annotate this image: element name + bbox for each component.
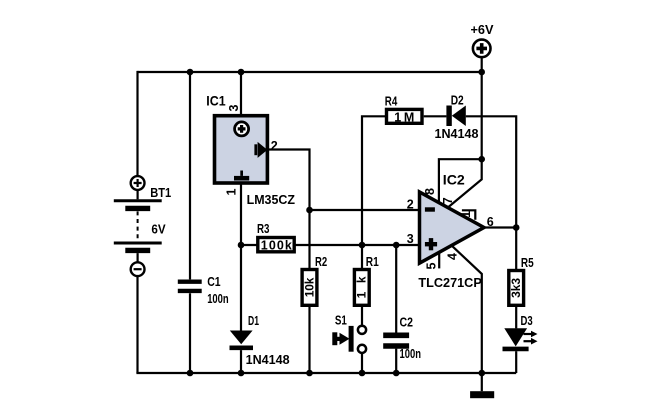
svg-text:7: 7	[441, 197, 455, 204]
wire C1 branch	[189, 72, 191, 373]
svg-text:3: 3	[227, 104, 241, 111]
node bottom ground	[479, 370, 486, 377]
svg-text:2: 2	[407, 197, 414, 211]
wire IC1 pin1 down	[240, 183, 242, 331]
svg-text:R1: R1	[366, 255, 379, 269]
svg-text:R5: R5	[521, 256, 534, 270]
wire opamp pin8	[439, 159, 482, 202]
wire top rail	[138, 71, 482, 73]
wire IC1 pin3	[240, 72, 242, 114]
svg-text:TLC271CP: TLC271CP	[418, 275, 482, 290]
svg-text:S1: S1	[335, 314, 347, 328]
LED D3	[503, 314, 538, 373]
wire IC1 pin2 to opamp pin2	[267, 150, 419, 211]
capacitor C2	[383, 245, 421, 373]
wire opamp pin4 to ground	[452, 246, 482, 373]
svg-text:6V: 6V	[151, 223, 166, 237]
node bottom S1	[359, 370, 366, 377]
svg-text:BT1: BT1	[150, 186, 171, 200]
svg-text:1M: 1M	[394, 110, 414, 124]
node bottom C1	[187, 370, 194, 377]
switch S1	[332, 314, 366, 374]
resistor R2 10k	[302, 210, 327, 373]
node R3 left	[238, 242, 245, 249]
wire opamp pin1 stub	[462, 210, 475, 220]
svg-text:C2: C2	[400, 316, 413, 330]
wire opamp output pin6	[484, 226, 516, 228]
node pin2	[306, 207, 313, 214]
+6V supply	[448, 22, 494, 208]
svg-text:D1: D1	[248, 314, 259, 328]
wire left rail lower	[136, 276, 138, 373]
node output	[513, 224, 520, 231]
svg-text:IC2: IC2	[443, 173, 465, 188]
node opamp supply	[478, 156, 485, 163]
resistor R1 1k	[354, 245, 378, 326]
battery BT1	[114, 176, 171, 276]
resistor R5 3k3	[509, 228, 534, 329]
node top C1	[187, 69, 194, 76]
svg-text:2: 2	[271, 139, 278, 153]
svg-text:4: 4	[445, 253, 459, 260]
capacitor C1	[178, 275, 229, 306]
svg-text:C1: C1	[207, 275, 220, 289]
svg-text:D3: D3	[521, 314, 533, 328]
node bottom D1	[238, 370, 245, 377]
svg-text:R3: R3	[257, 222, 270, 236]
svg-text:LM35CZ: LM35CZ	[247, 192, 295, 207]
svg-text:R2: R2	[315, 255, 327, 269]
node top IC1 pin3	[238, 69, 245, 76]
svg-text:100k: 100k	[261, 239, 292, 253]
svg-text:IC1: IC1	[206, 94, 226, 109]
node top +6V	[478, 69, 485, 76]
svg-text:1N4148: 1N4148	[246, 352, 290, 367]
svg-text:10k: 10k	[302, 277, 316, 297]
diode D2 1N4148	[435, 93, 517, 227]
svg-text:100n: 100n	[400, 347, 422, 361]
svg-text:D2: D2	[451, 93, 464, 107]
svg-text:100n: 100n	[207, 292, 229, 306]
resistor R3 100k	[241, 222, 420, 253]
op-amp IC2 TLC271CP	[407, 173, 494, 290]
svg-text:3k3: 3k3	[509, 278, 523, 298]
svg-text:5: 5	[425, 262, 439, 269]
svg-text:8: 8	[423, 188, 437, 195]
wire opamp pin5 stub	[438, 253, 440, 269]
svg-text:1N4148: 1N4148	[435, 126, 479, 141]
svg-text:3: 3	[407, 232, 414, 246]
wire bottom rail	[136, 372, 516, 374]
svg-text:+6V: +6V	[471, 22, 494, 37]
wire left rail upper	[136, 71, 138, 176]
diode D1 1N4148	[230, 314, 290, 373]
resistor R4 1M	[362, 95, 446, 246]
node R4 R1	[359, 242, 366, 249]
ground	[470, 373, 494, 398]
node bottom R2	[306, 370, 313, 377]
svg-text:R4: R4	[385, 95, 398, 109]
svg-text:1: 1	[459, 211, 473, 218]
node C2 top	[393, 242, 400, 249]
IC1 LM35CZ	[206, 94, 295, 208]
node bottom C2	[393, 370, 400, 377]
svg-text:1: 1	[224, 188, 238, 195]
